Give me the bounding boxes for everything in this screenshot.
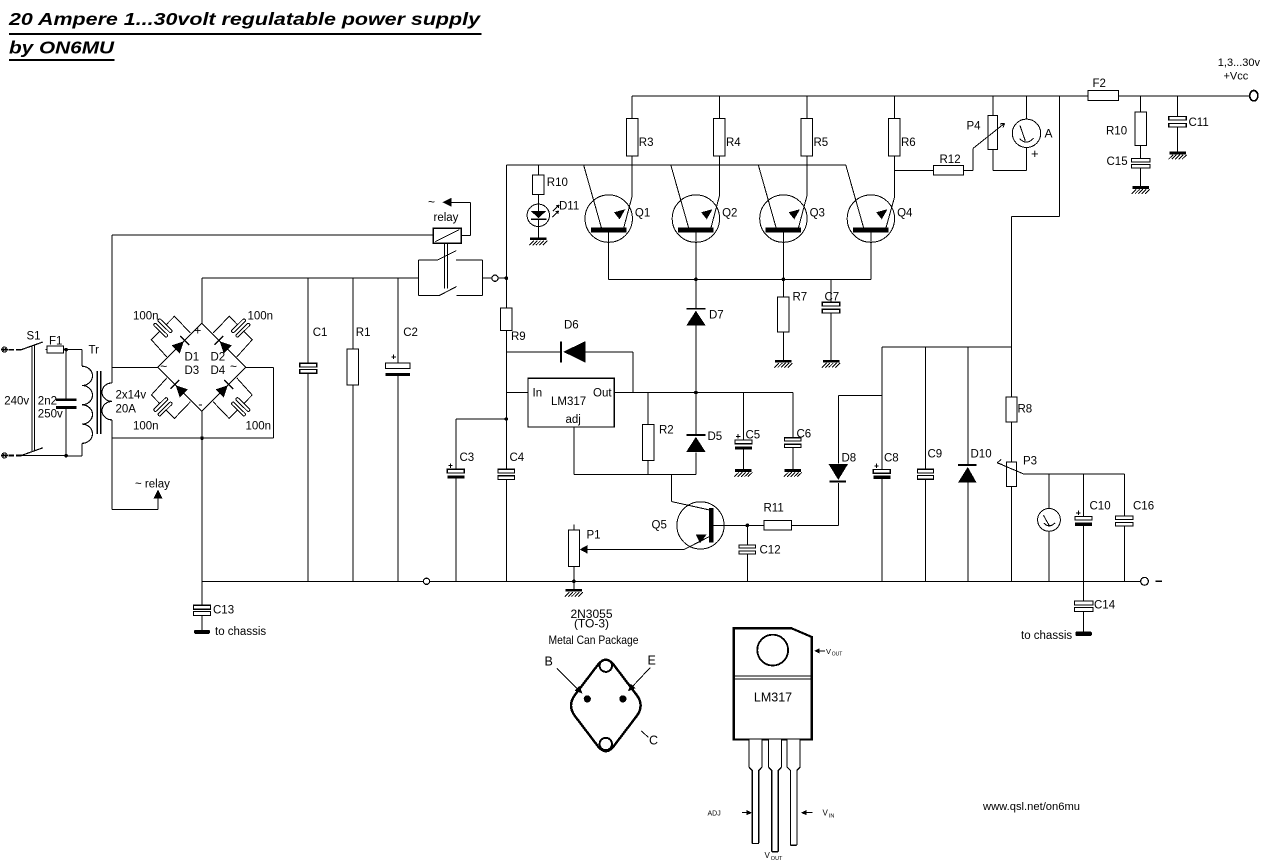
svg-text:~: ~ [230,360,237,374]
wire R8 to P3 [1011,422,1013,462]
switch S1 [22,342,43,350]
svg-text:D6: D6 [564,319,579,331]
svg-text:In: In [533,387,543,399]
LM317 TO-220 body [734,628,812,739]
wire In lead [506,392,528,394]
wire base bus [506,164,846,166]
svg-text:ADJ: ADJ [708,810,721,817]
svg-text:R12: R12 [940,154,961,166]
wire Q3 collector [782,232,784,279]
resistor R10 [537,165,539,175]
LM317 tab separator [734,675,812,677]
resistor R10 (output) [1140,96,1142,112]
potentiometer P3 [1007,462,1017,487]
wire R11 to D8 [792,524,839,526]
svg-text:D2: D2 [211,351,226,363]
wire Out line [614,392,793,394]
svg-text:IN: IN [829,813,835,819]
svg-text:R4: R4 [726,137,741,149]
potentiometer P1 [573,525,575,530]
svg-text:B: B [545,655,553,669]
wire secondary to relay coil [111,235,113,368]
svg-text:R5: R5 [814,137,829,149]
wire adj lead [573,427,575,475]
voltmeter [1038,509,1061,532]
relay contact right [482,260,484,296]
wire left rail [202,277,419,279]
wire Q2 collector [695,232,697,279]
relay coil [433,228,461,243]
svg-text:100n: 100n [133,310,159,322]
svg-text:LM317: LM317 [551,396,586,408]
svg-text:D5: D5 [708,431,723,443]
wire mid rail [882,346,1012,348]
svg-text:R1: R1 [356,327,371,339]
svg-text:V: V [765,851,771,860]
potentiometer P4 [992,96,994,116]
diode D6 [506,351,562,353]
svg-text:+: + [194,324,201,338]
capacitor 100n across D1 [151,330,167,357]
svg-text:D1: D1 [185,351,200,363]
svg-text:www.qsl.net/on6mu: www.qsl.net/on6mu [982,801,1080,813]
svg-text:LM317: LM317 [754,691,792,705]
capacitor C5 [742,393,744,440]
svg-text:Q4: Q4 [897,208,913,220]
ground under R7 [775,360,792,363]
ground under P1 [566,589,583,592]
capacitor C9 [925,347,927,469]
capacitor 100n across D3 [151,378,167,405]
resistor R7 [782,279,784,297]
svg-text:2n2: 2n2 [38,395,57,407]
wire Q4 collector [870,232,872,279]
svg-text:C7: C7 [825,292,840,304]
capacitor 2n2 250v [65,350,67,399]
arrow to relay [443,198,452,207]
svg-text:R9: R9 [511,331,526,343]
svg-text:C1: C1 [313,327,328,339]
svg-text:OUT: OUT [832,651,843,657]
diode D7 [695,279,697,308]
resistor R2 [647,393,649,425]
diode D2 [220,341,232,353]
svg-text:100n: 100n [248,310,274,322]
ground under C7 [823,360,840,363]
mains terminal top [2,347,7,352]
chassis under C13 [194,630,210,634]
bridge diamond [158,323,246,411]
capacitor C10 [1083,474,1085,516]
transistor Q4 [847,195,894,242]
svg-text:Q1: Q1 [635,208,650,220]
transistor Q2 [672,195,719,242]
svg-text:C14: C14 [1094,600,1116,612]
svg-text:C9: C9 [928,448,943,460]
diode D5 [694,391,698,395]
fuse F2 [1088,90,1118,100]
capacitor C7 [830,279,832,302]
resistor R4 [718,96,720,119]
svg-text:20 Ampere 1...30volt regulatab: 20 Ampere 1...30volt regulatable power s… [8,9,482,29]
label C with tick [641,731,648,737]
svg-text:P4: P4 [967,120,982,132]
svg-text:R10: R10 [547,177,568,189]
capacitor C11 [1177,96,1179,116]
svg-text:OUT: OUT [771,856,783,860]
resistor R5 [806,96,808,119]
wire P1 to bus + ground [573,566,575,581]
svg-text:C13: C13 [213,604,234,616]
diode D10 [967,347,969,464]
svg-text:D8: D8 [842,453,857,465]
resistor R6 [893,96,895,119]
svg-text:V: V [826,647,831,656]
capacitor C15 [1131,158,1150,162]
capacitor 100n across D2 [237,330,253,357]
wire R9 to LM317 [505,330,507,470]
svg-text:C3: C3 [460,452,475,464]
svg-text:20A: 20A [116,403,137,415]
capacitor C1 [307,278,309,363]
relay mechanical link [443,243,445,288]
2N3055 pins B and E [584,695,591,702]
wire secondary top to bridge [112,367,158,369]
capacitor C2 [397,278,399,363]
2N3055 TO-3 can outline [571,660,641,751]
capacitor C6 [792,393,794,439]
svg-text:F2: F2 [1093,78,1106,90]
diode D3 [176,385,188,397]
svg-text:V: V [823,809,829,818]
svg-text:240v: 240v [4,396,29,408]
transistor Q3 [760,195,807,242]
svg-text:C2: C2 [403,327,418,339]
transformer Tr secondary [111,368,113,383]
svg-text:1,3...30v: 1,3...30v [1218,57,1261,69]
svg-text:2x14v: 2x14v [116,390,147,402]
junction C3/C4 [505,417,509,421]
wire bridge - down to bottom bus [201,411,203,581]
svg-text:C5: C5 [746,429,761,441]
wire adj rail [574,474,696,476]
relay contact left [418,260,420,296]
svg-text:D4: D4 [211,365,226,377]
wire top +V bus [632,95,1250,97]
svg-text:R7: R7 [793,292,808,304]
svg-text:+: + [1031,146,1039,161]
wire Q5 base to R11 [714,524,764,526]
ammeter A [1012,119,1040,147]
junction [64,348,68,352]
capacitor C8 [881,347,883,469]
wire +V to rail (right) [1059,96,1061,217]
svg-text:Metal Can Package: Metal Can Package [549,633,639,647]
svg-text:C11: C11 [1189,117,1209,129]
wire to relay coil AC return [111,438,113,509]
svg-text:E: E [648,654,656,668]
svg-text:R3: R3 [639,137,654,149]
output terminal - [1141,577,1149,585]
transformer Tr primary [66,349,82,351]
svg-text:C4: C4 [510,452,525,464]
wire secondary bottom rail [112,437,273,439]
resistor R8 [1006,397,1017,422]
diode D1 [172,341,184,353]
resistor R1 [352,278,354,349]
capacitor C13 [201,581,203,605]
diode D4 [216,385,228,397]
resistor R9 [501,308,512,330]
svg-text:Q2: Q2 [722,208,737,220]
svg-text:100n: 100n [133,420,159,432]
2N3055 mounting holes [600,660,612,672]
svg-text:C: C [649,734,658,748]
svg-text:relay: relay [434,212,459,224]
wire collector bus [609,278,871,280]
resistor R3 [631,96,633,119]
svg-text:C16: C16 [1133,501,1154,513]
svg-text:to chassis: to chassis [1021,630,1072,642]
svg-text:C15: C15 [1107,156,1128,168]
svg-text:R8: R8 [1018,403,1033,415]
svg-text:P3: P3 [1023,455,1037,467]
svg-text:to chassis: to chassis [215,626,266,638]
ground under C5 [735,469,752,472]
capacitor 100n across D4 [237,378,253,405]
transistor Q1 [585,195,632,242]
svg-text:R6: R6 [901,137,916,149]
svg-text:+Vcc: +Vcc [1224,71,1249,83]
resistor R11 [764,521,792,530]
ground under C15 [1132,186,1149,189]
svg-text:-: - [198,396,202,411]
output terminal +Vcc [1250,91,1258,101]
svg-text:(TO-3): (TO-3) [574,617,609,631]
wire P3 wiper rail [1024,473,1125,475]
arrow ~relay [153,489,162,498]
fuse F1 [46,349,67,351]
wire P3 to bus [1011,487,1013,582]
diode D8 [837,395,839,463]
wire bottom bus [202,580,1141,582]
capacitor C16 [1123,474,1125,516]
svg-text:R10: R10 [1106,126,1127,138]
wire R12 to P4 wiper [972,148,974,170]
svg-text:A: A [1045,126,1053,140]
wire bridge + to left rail [201,278,203,323]
svg-text:250v: 250v [38,409,63,421]
svg-text:Q3: Q3 [810,208,825,220]
svg-text:adj: adj [566,414,581,426]
LM317 legs [749,740,762,844]
capacitor C14 [1083,581,1085,601]
LED D11 [527,204,549,226]
ground under C11 [1169,152,1186,155]
svg-text:by ON6MU: by ON6MU [9,37,116,57]
svg-text:P1: P1 [587,530,601,542]
svg-text:100n: 100n [246,420,272,432]
svg-text:C6: C6 [797,429,812,441]
svg-text:C10: C10 [1090,501,1111,513]
svg-text:D10: D10 [971,449,992,461]
chassis under C14 [1075,631,1092,636]
capacitor C12 [746,524,750,528]
svg-text:R11: R11 [764,502,784,514]
capacitor C4 [498,469,515,473]
svg-text:~ relay: ~ relay [135,478,170,490]
wire bridge right corner down [246,366,274,368]
mains terminal bottom [2,453,7,458]
wire mains bottom [22,454,67,456]
svg-text:S1: S1 [27,331,41,343]
LED arrows [553,206,559,212]
svg-text:F1: F1 [49,335,62,347]
svg-text:Q5: Q5 [652,520,667,532]
wire Q1 collector [608,232,610,279]
wire main vertical [505,165,507,308]
LM317 tab hole [757,635,788,666]
svg-text:C12: C12 [760,545,781,557]
ground under D11 [530,238,547,241]
svg-text:~: ~ [428,195,435,209]
svg-text:D3: D3 [185,365,200,377]
svg-text:~: ~ [160,360,167,374]
resistor R12 [894,169,933,171]
regulator LM317 [528,378,614,427]
wire relay contact output [483,277,492,279]
svg-text:R2: R2 [659,425,674,437]
svg-text:D11: D11 [559,201,579,213]
svg-text:Out: Out [593,387,612,399]
ground under C6 [785,469,802,472]
svg-text:Tr: Tr [89,345,100,357]
capacitor C3 [456,418,507,420]
transistor Q5 [677,502,724,549]
svg-text:D7: D7 [709,310,724,322]
transformer core [96,371,98,434]
svg-text:C8: C8 [884,453,899,465]
